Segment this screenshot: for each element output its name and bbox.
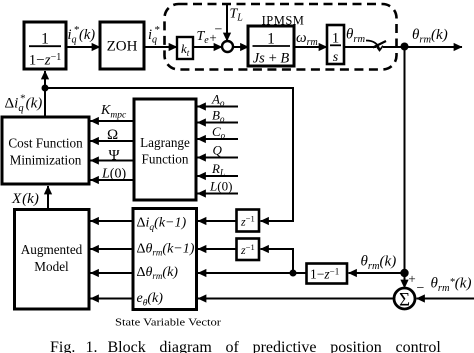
svg-text:Minimization: Minimization (10, 153, 82, 168)
block z-1 first (237, 210, 260, 232)
junction dot on feedback line (400, 269, 408, 277)
wire node junction to B10 (349, 272, 405, 274)
node theta_rm(k) (401, 43, 409, 51)
svg-text:Function: Function (142, 152, 189, 167)
wire row3 B9 to B8 (91, 272, 134, 274)
wire S1 to B4 (233, 46, 249, 48)
svg-text:Δθrm(k−1): Δθrm(k−1) (137, 242, 195, 258)
svg-text:Lagrange: Lagrange (140, 135, 190, 150)
svg-text:Ao: Ao (211, 92, 225, 109)
wire feedback node down to sum S2 (404, 47, 406, 289)
svg-text:1.: 1. (86, 339, 98, 353)
block B2 ZOH (100, 22, 144, 69)
svg-text:Q: Q (213, 143, 223, 158)
svg-text:Fig.: Fig. (50, 339, 75, 353)
svg-text:θrm*(k): θrm*(k) (431, 276, 472, 295)
block B8 Augmented Model (15, 210, 90, 310)
wire sampler to output edge (383, 46, 462, 48)
wire kt to sum S1 (193, 46, 222, 48)
block B7 Lagrange Function (134, 99, 196, 200)
svg-text:Augmented: Augmented (21, 242, 83, 257)
wire Ao input (198, 106, 239, 108)
block B10 1-z^-1 (307, 264, 348, 284)
svg-text:θrm: θrm (346, 27, 365, 46)
svg-text:L(0): L(0) (101, 167, 126, 182)
svg-text:θrm(k): θrm(k) (361, 254, 397, 273)
svg-text:1: 1 (332, 31, 340, 47)
wire Bo input (198, 122, 239, 124)
wire S2 output to B9 row4 (198, 298, 394, 300)
wire Kmpc Lagrange to Cost (91, 120, 135, 122)
svg-text:iq*(k): iq*(k) (68, 24, 96, 46)
svg-text:Ω: Ω (107, 127, 118, 143)
node on delta iq* line (42, 85, 49, 92)
block B3 kt (177, 37, 193, 59)
svg-text:Δiq(k−1): Δiq(k−1) (137, 216, 187, 234)
junction dot before B10 output (290, 270, 297, 277)
svg-text:Bo: Bo (212, 108, 225, 125)
svg-text:TL: TL (230, 7, 244, 24)
svg-text:X(k): X(k) (11, 191, 39, 207)
wire Co input (198, 138, 239, 140)
svg-text:Σ: Σ (399, 290, 410, 311)
block B6 Cost Function Minimization (2, 117, 89, 184)
svg-text:Kmpc: Kmpc (100, 103, 127, 121)
wire B10 to B9 row3 (198, 272, 307, 274)
svg-text:+: + (408, 271, 415, 286)
summing junction S2 (394, 288, 415, 309)
svg-text:L(0): L(0) (209, 179, 232, 194)
svg-text:Ψ: Ψ (109, 148, 121, 164)
svg-text:1: 1 (41, 31, 49, 48)
wire row1 B9 to B8 (91, 220, 134, 222)
wire L(0) Lagrange to Cost (91, 179, 135, 181)
wire B1 to ZOH (66, 46, 100, 48)
block B9 state variable vector (133, 209, 197, 310)
svg-text:ZOH: ZOH (107, 39, 138, 55)
svg-text:−: − (215, 23, 223, 38)
wire Omega Lagrange to Cost (91, 140, 135, 142)
dashed box IPMSM plant (165, 4, 397, 70)
svg-text:Δiq*(k): Δiq*(k) (5, 93, 43, 115)
svg-text:s: s (333, 50, 339, 65)
wire B5 to sampler (344, 46, 376, 48)
wire z-1 first to B9 (198, 220, 237, 222)
wire z-1 second to B9 (198, 248, 237, 250)
svg-text:Js + B: Js + B (253, 51, 290, 67)
wire delta iq* output up to B1 (44, 71, 46, 117)
svg-text:Block diagram of predictive po: Block diagram of predictive position con… (108, 339, 442, 353)
svg-text:State Variable Vector: State Variable Vector (115, 317, 221, 329)
svg-text:1: 1 (267, 31, 275, 48)
wire ZOH to kt (144, 46, 177, 48)
svg-text:Cost Function: Cost Function (8, 136, 83, 151)
wire row4 B9 to B8 (91, 298, 134, 300)
wire TL input (226, 4, 228, 41)
wire row2 B9 to B8 (91, 248, 134, 250)
wire Q input (198, 157, 239, 159)
svg-text:RL: RL (211, 161, 225, 178)
wire X(k) B8 to B6 (47, 186, 49, 210)
svg-text:θrm(k): θrm(k) (412, 27, 448, 46)
svg-text:ωrm: ωrm (296, 30, 318, 48)
wire delta iq* to z-1 block 1 (45, 88, 293, 221)
svg-text:−: − (417, 281, 425, 296)
block B1 1/(1-z^-1) (24, 22, 66, 69)
summing junction S1 (222, 41, 233, 52)
block z-1 second (237, 239, 260, 261)
svg-text:Te: Te (197, 29, 210, 46)
svg-text:iq*: iq* (148, 24, 160, 46)
svg-text:Model: Model (34, 259, 69, 274)
block B4 1/(Js+B) (248, 26, 294, 67)
sampler arc arrow (366, 41, 380, 50)
block B5 1/s (327, 25, 344, 65)
wire RL input (198, 175, 239, 177)
wire L(0) input (198, 193, 239, 195)
sampler switch arm (373, 41, 386, 48)
wire junction up to z-1 second (261, 249, 294, 273)
wire B4 to B5 (294, 46, 327, 48)
wire theta_rm*(k) input (417, 298, 474, 300)
wire Psi Lagrange to Cost (91, 160, 135, 162)
svg-text:Co: Co (212, 124, 226, 141)
svg-text:eθ(k): eθ(k) (137, 291, 164, 309)
